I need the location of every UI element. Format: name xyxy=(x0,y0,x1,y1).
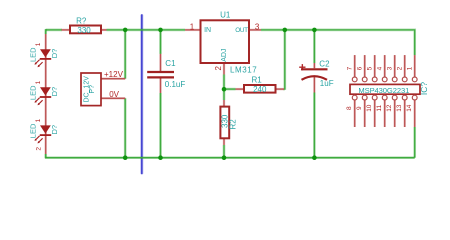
wire bottom ground rail xyxy=(45,156,415,159)
pin U1 1 IN xyxy=(185,29,201,31)
junction top rail / +12V branch xyxy=(123,28,128,33)
IC socket pin 2 top xyxy=(404,55,406,77)
wire ADJ node vertical xyxy=(223,75,226,101)
junction node A ADJ/R1/R2 xyxy=(222,87,227,92)
wire LED chain bottom corner xyxy=(44,154,47,158)
pin U1 3 OUT xyxy=(249,29,261,31)
IC socket pin 3 top xyxy=(394,55,396,77)
svg-text:2: 2 xyxy=(214,66,223,71)
svg-text:LED: LED xyxy=(29,123,38,138)
svg-text:7: 7 xyxy=(347,66,354,70)
junction bottom rail / C2 branch xyxy=(312,155,317,160)
junction bottom rail / 0V branch xyxy=(123,155,128,160)
svg-text:12: 12 xyxy=(386,104,393,112)
svg-text:11: 11 xyxy=(376,104,383,111)
svg-text:R1: R1 xyxy=(251,76,262,85)
wire R2 bottom to rail xyxy=(223,145,226,158)
IC socket IC? body xyxy=(350,84,420,94)
svg-text:R2: R2 xyxy=(229,119,238,130)
wire C1 bottom to rail xyxy=(159,93,162,158)
junction bottom rail / C1 branch xyxy=(158,155,163,160)
svg-text:13: 13 xyxy=(396,104,403,112)
pin R2 bottom xyxy=(223,138,225,145)
svg-text:D?: D? xyxy=(50,125,59,135)
svg-text:10: 10 xyxy=(366,104,373,112)
wire +12V branch xyxy=(124,30,127,79)
regulator U1 body xyxy=(201,20,250,63)
svg-text:3: 3 xyxy=(255,23,260,32)
svg-text:OUT: OUT xyxy=(235,27,248,34)
svg-text:1: 1 xyxy=(35,42,42,46)
IC socket pin 8 bottom xyxy=(354,100,356,127)
wire R1 right riser to top rail xyxy=(284,30,285,90)
wire node A to R1 left xyxy=(224,88,236,91)
pin R1 right xyxy=(276,88,285,90)
LED D?3 emission arrows xyxy=(36,136,40,140)
pin P? +12V xyxy=(101,77,125,79)
capacitor C1 plates xyxy=(147,71,174,73)
svg-text:1uF: 1uF xyxy=(320,79,334,88)
LED chain series pins xyxy=(45,34,47,154)
IC socket pin 13 bottom xyxy=(404,100,406,127)
junction bottom rail / R2 branch xyxy=(222,155,227,160)
svg-text:3: 3 xyxy=(387,66,394,70)
svg-text:IN: IN xyxy=(204,27,211,34)
wire 0V branch to rail xyxy=(124,98,127,157)
IC socket pin 5 top xyxy=(374,55,376,77)
pin C1 bottom xyxy=(159,78,161,93)
bus line vertical xyxy=(140,15,143,174)
pin R? right xyxy=(102,29,107,31)
IC socket pin 1 top xyxy=(414,55,416,77)
svg-text:0V: 0V xyxy=(109,90,119,99)
IC socket pin 12 bottom xyxy=(394,100,396,127)
capacitor C2 polarity plus xyxy=(299,66,305,68)
IC socket pin 7 top xyxy=(354,55,356,77)
svg-text:330: 330 xyxy=(77,26,91,35)
svg-text:LED: LED xyxy=(29,47,38,62)
LED D?3 body xyxy=(40,125,51,133)
connector P? DC_12V body xyxy=(81,73,101,106)
svg-text:1: 1 xyxy=(407,66,414,70)
capacitor C2 top plate xyxy=(301,68,328,70)
wire top rail R? to U1 pin1 xyxy=(107,29,186,32)
junction top rail / C2 branch xyxy=(312,28,317,33)
IC socket pin 6 top xyxy=(364,55,366,77)
svg-text:R?: R? xyxy=(76,16,87,25)
junction top rail / C1 branch xyxy=(158,28,163,33)
IC socket pin 4 top xyxy=(384,55,386,77)
svg-text:C1: C1 xyxy=(165,59,176,68)
svg-text:U1: U1 xyxy=(220,10,231,19)
svg-text:2: 2 xyxy=(36,147,43,151)
svg-text:LED: LED xyxy=(29,85,38,100)
wire C2 bottom to rail xyxy=(313,93,316,158)
svg-text:1: 1 xyxy=(190,22,195,31)
svg-text:1: 1 xyxy=(35,80,42,84)
LED D?1 body xyxy=(40,49,51,57)
wire LED chain top corner xyxy=(44,29,47,34)
resistor R2 body xyxy=(220,107,229,139)
pin R? left xyxy=(62,29,70,31)
wire top rail U1 pin3 to socket pin1 drop xyxy=(261,30,415,55)
pin C2 bottom xyxy=(313,77,315,93)
capacitor C2 bottom curved plate xyxy=(302,76,328,80)
svg-text:9: 9 xyxy=(356,106,363,110)
svg-text:8: 8 xyxy=(346,106,353,110)
svg-text:1: 1 xyxy=(35,118,42,122)
wire top rail from LED corner to R? xyxy=(46,29,62,32)
svg-text:240: 240 xyxy=(253,85,267,94)
svg-text:ADJ: ADJ xyxy=(221,49,228,62)
svg-text:C2: C2 xyxy=(319,60,330,69)
svg-text:4: 4 xyxy=(377,66,384,70)
wire C1 top branch xyxy=(159,30,162,54)
resistor R? body xyxy=(70,26,101,34)
IC socket pin 11 bottom xyxy=(384,100,386,127)
wire socket pin14 to bottom rail xyxy=(413,127,416,158)
svg-text:D?: D? xyxy=(50,49,59,59)
LED D?2 body xyxy=(40,87,51,95)
svg-text:LM317: LM317 xyxy=(230,66,257,75)
IC socket pin 9 bottom xyxy=(364,100,366,127)
svg-text:0.1uF: 0.1uF xyxy=(165,80,186,89)
IC socket pin 10 bottom xyxy=(374,100,376,127)
pin R1 left xyxy=(236,88,245,90)
svg-text:P?: P? xyxy=(89,85,96,94)
svg-text:6: 6 xyxy=(357,66,364,70)
pin P? 0V xyxy=(101,97,125,99)
svg-text:MSP430G2231: MSP430G2231 xyxy=(358,86,409,95)
LED D?1 emission arrows xyxy=(36,60,40,64)
IC socket pin 14 bottom xyxy=(414,100,416,127)
svg-text:D?: D? xyxy=(50,87,59,97)
pin R2 top xyxy=(223,100,225,107)
wire C2 top branch xyxy=(313,30,316,63)
svg-text:2: 2 xyxy=(397,66,404,70)
svg-text:IC?: IC? xyxy=(419,82,429,96)
LED D?2 emission arrows xyxy=(36,98,40,102)
resistor R1 body xyxy=(244,85,276,93)
pin C2 top xyxy=(313,63,315,68)
junction top rail / R1 riser xyxy=(283,28,288,33)
svg-text:5: 5 xyxy=(367,66,374,70)
pin C1 top xyxy=(159,54,161,71)
svg-text:14: 14 xyxy=(406,104,413,112)
svg-text:+12V: +12V xyxy=(104,70,124,79)
pin U1 2 ADJ xyxy=(223,63,225,75)
